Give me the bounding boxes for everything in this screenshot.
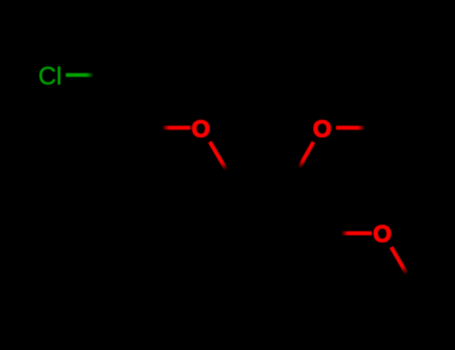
wire: bond Cl-C1 green half xyxy=(66,73,87,77)
wire: bond C2-O1 red half xyxy=(163,126,170,130)
wire: bond O2-methyl red half xyxy=(336,126,358,130)
wire: bond O1-ring red half xyxy=(210,142,222,163)
svg-text:O: O xyxy=(373,221,392,248)
svg-text:O: O xyxy=(313,116,332,143)
svg-text:O: O xyxy=(191,116,210,143)
svg-text:Cl: Cl xyxy=(38,63,62,91)
wire: bond ring-O3 red half xyxy=(342,231,349,235)
wire: bond O2-ring red half xyxy=(303,142,314,161)
wire: bond O3-methyl red half xyxy=(391,247,402,266)
